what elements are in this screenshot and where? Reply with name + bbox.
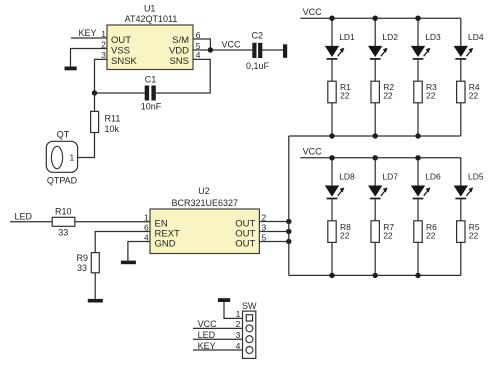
- resistor R3: [414, 81, 422, 103]
- resistor R6: [414, 221, 422, 243]
- SW pin 3 pad: [246, 336, 253, 343]
- junction LD3 at VCC rail: [415, 16, 420, 21]
- LED LD4: [454, 46, 474, 59]
- svg-text:LD8: LD8: [339, 172, 355, 182]
- svg-text:6: 6: [196, 30, 201, 40]
- junction LD6 at VCC rail: [415, 155, 420, 160]
- svg-text:2: 2: [262, 212, 267, 222]
- svg-text:QTPAD: QTPAD: [47, 176, 78, 186]
- svg-text:LD2: LD2: [382, 32, 398, 42]
- wire LED to SW pin 3: [193, 338, 243, 340]
- wire bottom rail bank 1: [289, 135, 461, 137]
- ground bar (C2): [283, 44, 287, 58]
- wire U2 pin 4 GND to ground: [128, 242, 150, 261]
- svg-text:33: 33: [77, 263, 87, 273]
- resistor R7: [371, 221, 379, 243]
- svg-text:10nF: 10nF: [141, 102, 162, 112]
- SW pin 2 pad: [246, 325, 253, 332]
- resistor R10: [52, 217, 75, 226]
- svg-text:1: 1: [101, 29, 106, 39]
- svg-text:10k: 10k: [105, 124, 120, 134]
- svg-text:2: 2: [101, 39, 106, 49]
- svg-text:OUT: OUT: [235, 238, 255, 249]
- svg-text:22: 22: [469, 91, 479, 101]
- svg-text:LD1: LD1: [339, 32, 355, 42]
- ground bar (U2 GND): [121, 261, 136, 265]
- svg-text:R10: R10: [55, 206, 72, 216]
- svg-text:U1: U1: [144, 3, 156, 13]
- svg-text:LD6: LD6: [425, 172, 441, 182]
- svg-text:LD7: LD7: [382, 172, 398, 182]
- wire bottom rail bank 2: [289, 274, 461, 276]
- IC U2 body: [150, 209, 259, 254]
- resistor R1: [328, 81, 336, 103]
- LED LD7: [368, 186, 388, 199]
- ground bar (R9): [88, 299, 103, 303]
- svg-text:KEY: KEY: [198, 341, 216, 351]
- svg-text:6: 6: [144, 222, 149, 232]
- junction LD7 at VCC rail: [373, 155, 378, 160]
- wire R5 to bottom rail: [460, 242, 462, 275]
- wire LD3 cathode to R3: [417, 59, 419, 81]
- wire LD5 cathode to R5: [460, 199, 462, 221]
- junction R8 at bottom rail: [329, 273, 334, 278]
- svg-text:1: 1: [70, 153, 75, 163]
- wire ground to SW pin 1: [224, 302, 243, 318]
- junction OUT bus pin2: [286, 219, 291, 224]
- capacitor C2 plates: [252, 43, 256, 58]
- svg-text:4: 4: [196, 50, 201, 60]
- wire LD7 anode from VCC rail: [374, 158, 376, 186]
- wire KEY to SW pin 4: [193, 349, 243, 351]
- wire LD6 anode from VCC rail: [417, 158, 419, 186]
- resistor R11: [91, 111, 99, 132]
- svg-text:VDD: VDD: [169, 46, 189, 57]
- svg-text:4: 4: [144, 232, 149, 242]
- svg-text:C2: C2: [252, 31, 264, 41]
- wire C1 to U1 pin 4: [156, 59, 210, 93]
- wire LD8 cathode to R8: [331, 199, 333, 221]
- svg-text:22: 22: [340, 91, 350, 101]
- svg-text:22: 22: [383, 91, 393, 101]
- LED LD8: [325, 186, 345, 199]
- wire C2 to ground: [262, 49, 283, 51]
- svg-text:SW: SW: [242, 301, 257, 311]
- wire node A to C1: [95, 92, 145, 94]
- LED LD6: [411, 186, 431, 199]
- wire LD1 cathode to R1: [331, 59, 333, 81]
- svg-text:AT42QT1011: AT42QT1011: [125, 14, 178, 24]
- wire LD2 cathode to R2: [374, 59, 376, 81]
- svg-text:VCC: VCC: [198, 319, 218, 329]
- junction node A: [92, 90, 97, 95]
- svg-text:LD3: LD3: [425, 32, 441, 42]
- svg-text:33: 33: [58, 228, 68, 238]
- svg-text:1: 1: [144, 212, 149, 222]
- wire LD8 anode from VCC rail: [331, 158, 333, 186]
- svg-text:QT: QT: [57, 129, 70, 139]
- svg-text:BCR321UE6327: BCR321UE6327: [172, 198, 239, 208]
- svg-text:S/M: S/M: [172, 35, 189, 46]
- svg-text:1: 1: [236, 309, 241, 319]
- wire LD5 anode from VCC rail: [460, 158, 462, 186]
- touch pad QT body: [46, 141, 77, 172]
- svg-text:3: 3: [101, 50, 106, 60]
- IC U1 body: [107, 25, 193, 70]
- svg-text:22: 22: [340, 230, 350, 240]
- junction R3 at bottom rail: [415, 133, 420, 138]
- wire U1 pin 2 VSS to ground: [71, 49, 108, 67]
- resistor R5: [457, 221, 465, 243]
- SW pin 1 square pad: [246, 315, 252, 321]
- LED LD1: [325, 46, 345, 59]
- wire LD4 anode from VCC rail: [460, 18, 462, 46]
- svg-text:22: 22: [469, 230, 479, 240]
- svg-text:SNSK: SNSK: [111, 56, 138, 67]
- wire node A to R11: [94, 93, 96, 111]
- wire U2 pin 2 OUT to bus: [259, 221, 288, 223]
- wire R7 to bottom rail: [374, 242, 376, 275]
- wire U2 pin 3 OUT to bus: [259, 231, 288, 233]
- junction LD2 at VCC rail: [373, 16, 378, 21]
- wire U1 pin 6 to pin 5: [193, 39, 210, 50]
- svg-text:VCC: VCC: [222, 39, 242, 49]
- junction R7 at bottom rail: [373, 273, 378, 278]
- LED LD3: [411, 46, 431, 59]
- wire LD6 cathode to R6: [417, 199, 419, 221]
- svg-text:VCC: VCC: [303, 7, 323, 17]
- svg-text:R11: R11: [105, 113, 121, 123]
- svg-text:0,1uF: 0,1uF: [246, 61, 270, 71]
- wire U2 pin 6 REXT to R9: [95, 232, 150, 253]
- junction OUT bus pin5: [286, 239, 291, 244]
- svg-text:OUT: OUT: [111, 35, 131, 46]
- wire KEY to U1 pin 1: [71, 37, 107, 39]
- wire R11 to QT pad: [78, 133, 95, 158]
- LED LD2: [368, 46, 388, 59]
- QT pad ellipse: [51, 146, 62, 168]
- svg-text:GND: GND: [155, 238, 176, 249]
- svg-text:LD5: LD5: [468, 172, 484, 182]
- wire R4 to bottom rail: [460, 103, 462, 136]
- junction R1 at bottom rail: [329, 133, 334, 138]
- wire LD3 anode from VCC rail: [417, 18, 419, 46]
- svg-text:VSS: VSS: [111, 45, 130, 56]
- junction VCC node: [208, 47, 213, 52]
- svg-text:4: 4: [236, 341, 241, 351]
- LED LD5: [454, 186, 474, 199]
- wire R9 to ground: [94, 273, 96, 299]
- wire OUT bus vertical: [288, 136, 290, 275]
- svg-text:22: 22: [383, 230, 393, 240]
- wire LD1 anode from VCC rail: [331, 18, 333, 46]
- junction LD1 at VCC rail: [329, 16, 334, 21]
- wire R10 to U2 pin 1 EN: [75, 221, 150, 223]
- junction R2 at bottom rail: [373, 133, 378, 138]
- wire VCC to SW pin 2: [193, 327, 243, 329]
- svg-text:KEY: KEY: [79, 28, 97, 38]
- wire LED to R10: [10, 221, 52, 223]
- ground bar (VSS): [65, 67, 77, 71]
- wire R6 to bottom rail: [417, 242, 419, 275]
- svg-text:LED: LED: [15, 211, 33, 221]
- svg-text:C1: C1: [145, 75, 157, 85]
- resistor R4: [457, 81, 465, 103]
- svg-text:22: 22: [426, 91, 436, 101]
- wire R3 to bottom rail: [417, 103, 419, 136]
- junction R6 at bottom rail: [415, 273, 420, 278]
- junction OUT bus pin3: [286, 229, 291, 234]
- resistor R2: [371, 81, 379, 103]
- connector SW body: [243, 311, 256, 358]
- wire LD7 cathode to R7: [374, 199, 376, 221]
- svg-text:5: 5: [262, 232, 267, 242]
- wire VCC rail bank 2: [300, 157, 461, 159]
- junction LD8 at VCC rail: [329, 155, 334, 160]
- SW pin 4 pad: [246, 347, 253, 354]
- svg-text:3: 3: [236, 330, 241, 340]
- wire U1 pin 5 VCC to C2: [193, 49, 252, 51]
- resistor R8: [328, 221, 336, 243]
- svg-text:LD4: LD4: [468, 32, 484, 42]
- svg-text:R9: R9: [77, 253, 89, 263]
- wire VCC rail bank 1: [300, 17, 461, 19]
- wire R8 to bottom rail: [331, 242, 333, 275]
- svg-text:22: 22: [426, 230, 436, 240]
- wire U1 pin 3 SNSK down to node A: [95, 59, 108, 93]
- wire R1 to bottom rail: [331, 103, 333, 136]
- svg-text:SNS: SNS: [169, 56, 189, 67]
- ground bar (SW pin 1): [218, 298, 230, 302]
- wire R2 to bottom rail: [374, 103, 376, 136]
- wire LD4 cathode to R4: [460, 59, 462, 81]
- svg-text:U2: U2: [198, 186, 210, 196]
- svg-text:LED: LED: [198, 330, 216, 340]
- wire LD2 anode from VCC rail: [374, 18, 376, 46]
- svg-text:3: 3: [262, 222, 267, 232]
- svg-text:2: 2: [236, 319, 241, 329]
- resistor R9: [91, 253, 99, 273]
- wire U2 pin 5 OUT to bus: [259, 241, 288, 243]
- capacitor C1 plates: [145, 86, 149, 101]
- svg-text:VCC: VCC: [303, 146, 323, 156]
